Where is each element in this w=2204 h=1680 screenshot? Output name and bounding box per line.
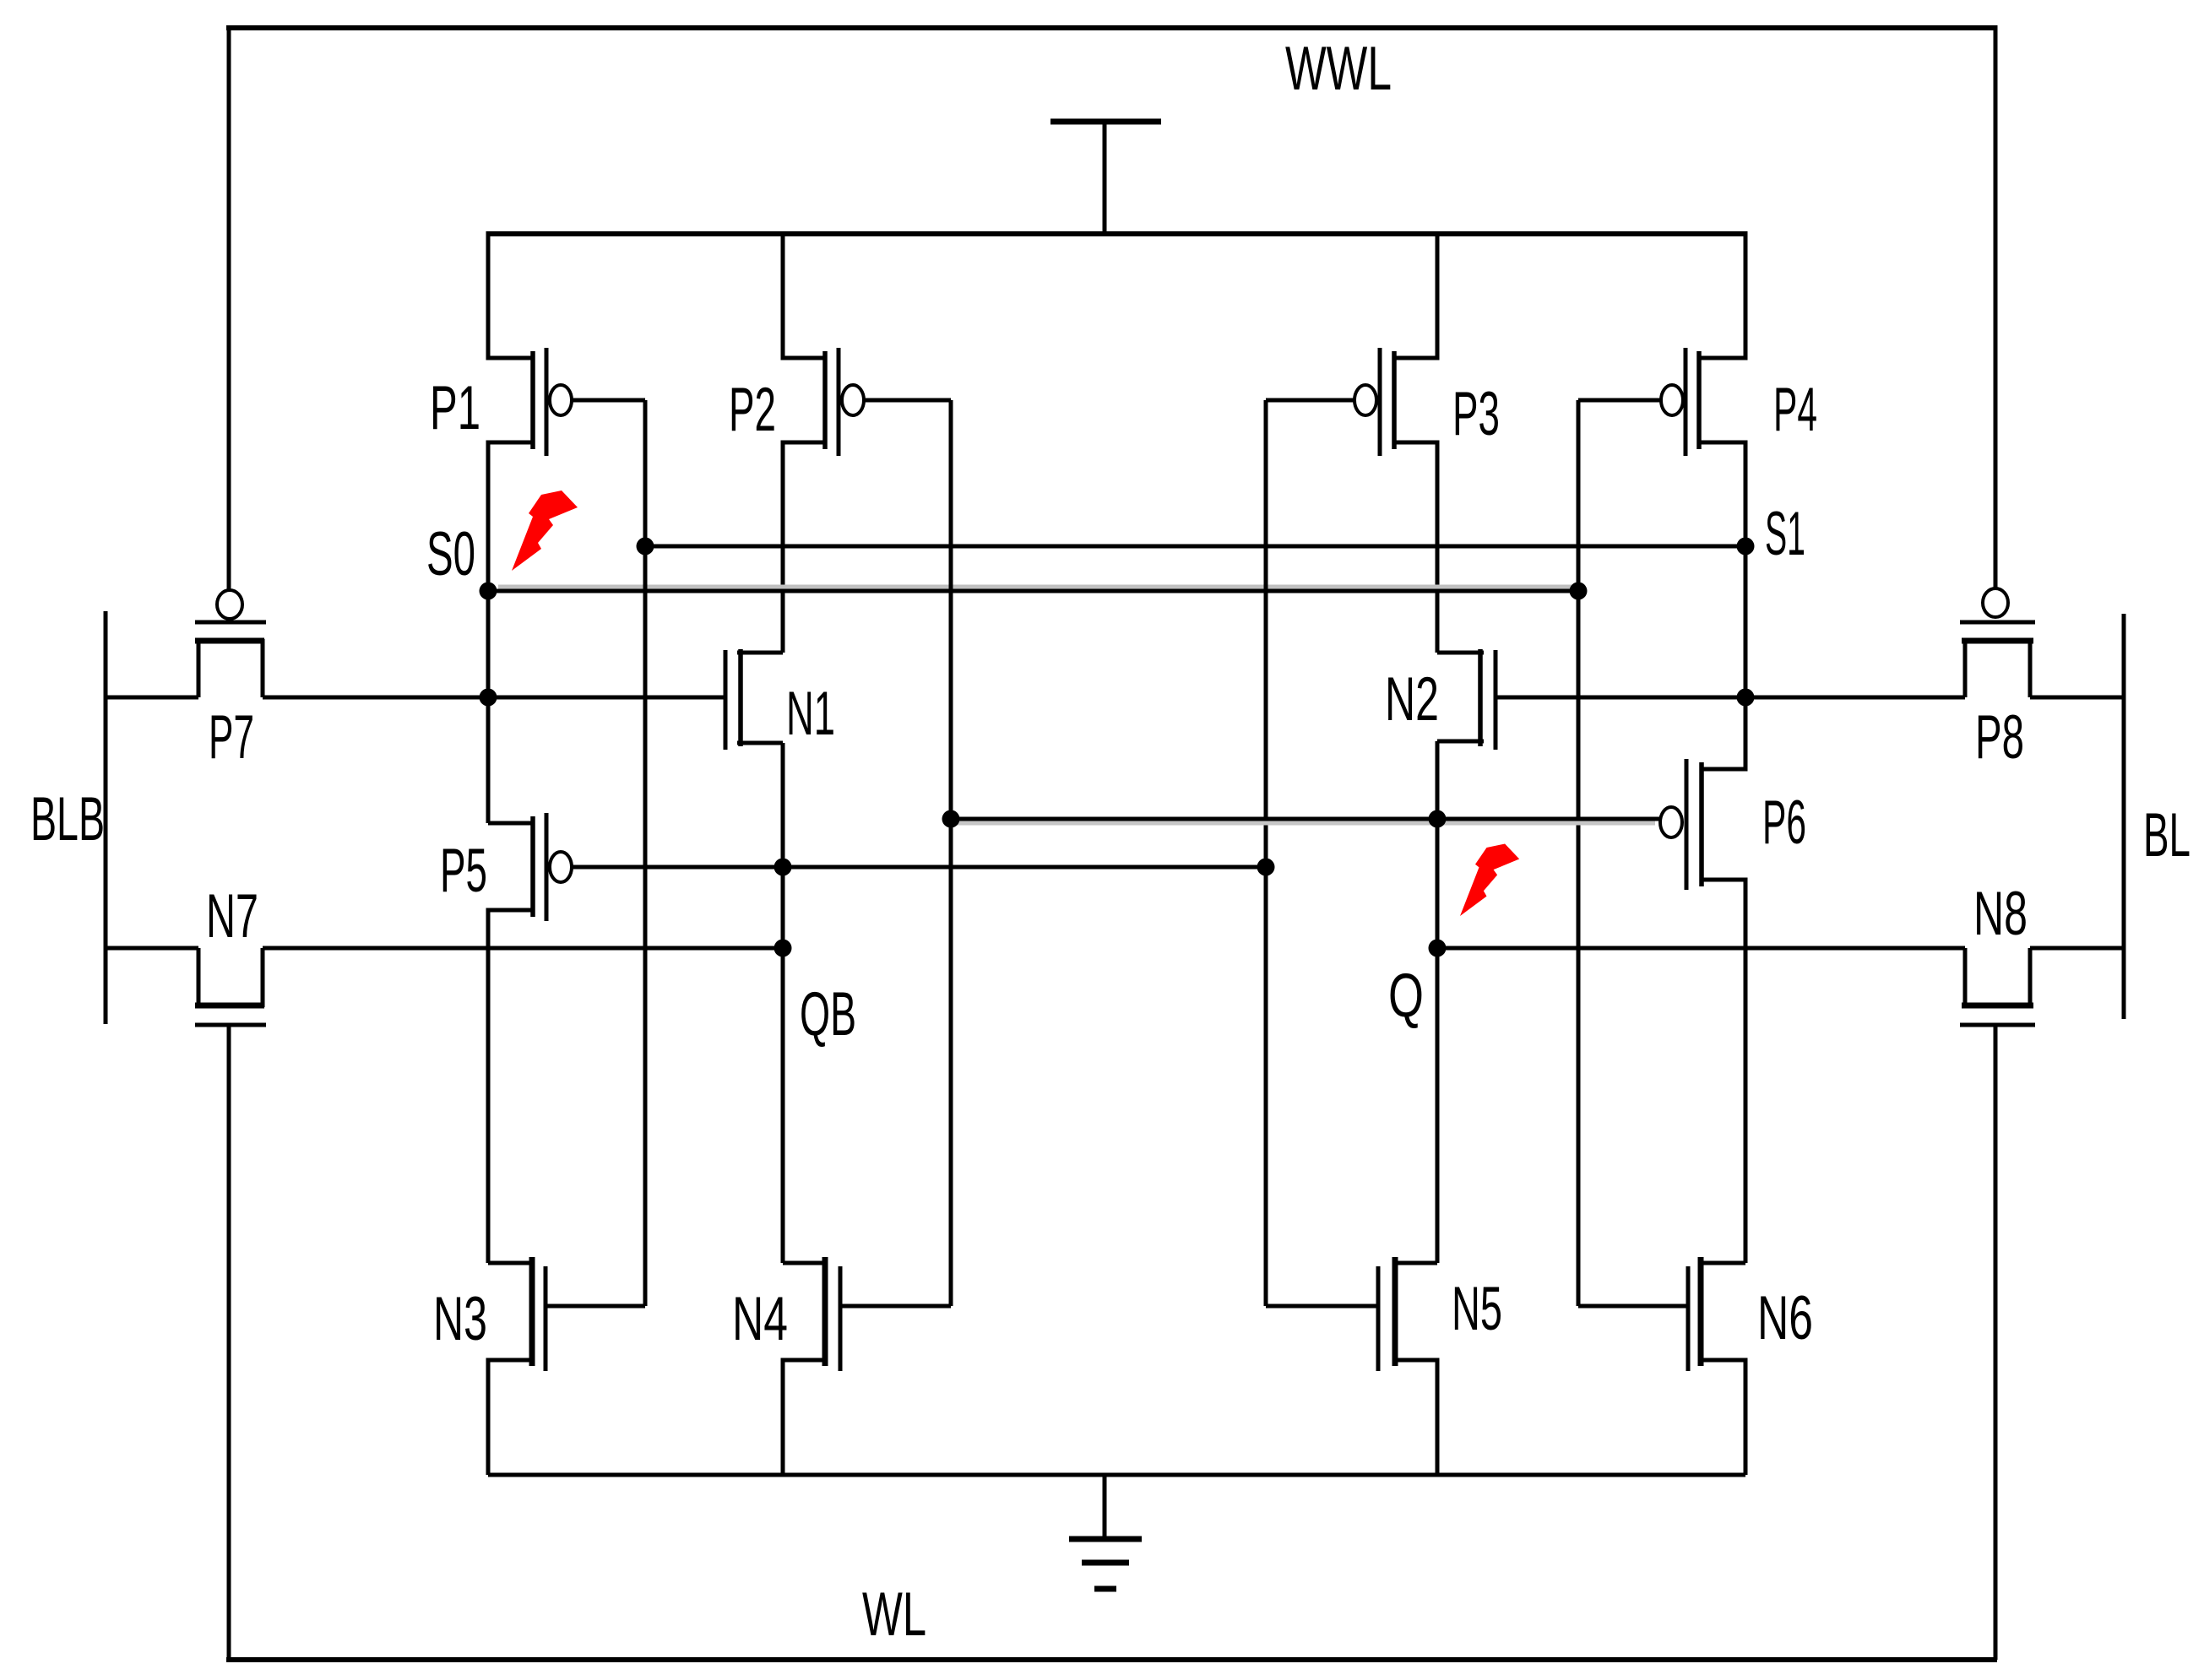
transistor N1 <box>488 649 783 750</box>
wire VDD stem <box>1103 122 1107 234</box>
node QB column <box>781 743 785 1263</box>
junction dot S1/N2 gate/P8 <box>1737 689 1755 707</box>
wire BLB bitline <box>104 611 108 1024</box>
wire N7 to node QB <box>263 946 784 951</box>
svg-text:P7: P7 <box>209 703 254 772</box>
transistor N7 <box>195 948 266 1025</box>
svg-text:WWL: WWL <box>1285 35 1392 103</box>
svg-text:P2: P2 <box>729 376 776 444</box>
transistor P2 <box>783 231 951 653</box>
wire BLB to N7 <box>106 946 198 951</box>
svg-text:N3: N3 <box>433 1285 487 1353</box>
wire Q to N8 <box>1437 946 1965 951</box>
wire P3 gate column to N5 <box>1264 400 1268 1306</box>
wire P2 gate column to N4 <box>949 400 953 1306</box>
SEU strike bolt at Q <box>1460 844 1519 917</box>
svg-text:S1: S1 <box>1765 500 1805 568</box>
transistor P5 <box>488 813 1266 1263</box>
node S0 column <box>486 591 491 823</box>
wire WWL top line <box>226 25 1997 30</box>
junction dot Q row/N2 <box>1429 810 1447 828</box>
wire P8 to BL <box>2030 696 2124 700</box>
svg-text:S0: S0 <box>426 520 475 588</box>
svg-text:N4: N4 <box>732 1285 788 1353</box>
node S0 junction dot <box>480 583 497 600</box>
svg-text:WL: WL <box>862 1580 926 1649</box>
transistor N8 <box>1960 948 2035 1025</box>
wire S0 horizontal <box>488 589 1578 593</box>
svg-text:N8: N8 <box>1973 880 2028 948</box>
node Q column <box>1436 741 1440 1263</box>
svg-text:N6: N6 <box>1757 1284 1813 1352</box>
svg-text:Q: Q <box>1388 962 1424 1030</box>
transistor P1 <box>488 231 645 591</box>
transistor P7 <box>195 590 266 697</box>
wire BL bitline <box>2122 614 2126 1019</box>
wire WL right vertical (N8 gate stem) <box>1994 1025 1998 1660</box>
svg-text:P1: P1 <box>430 374 480 442</box>
wire WWL right vertical <box>1994 25 1998 588</box>
svg-text:QB: QB <box>800 980 856 1049</box>
svg-text:P3: P3 <box>1452 380 1500 448</box>
node S1 junction dot <box>1737 538 1755 555</box>
junction dot QB row/P3 gate <box>1257 859 1275 876</box>
wire P4 gate column to N6 <box>1577 400 1581 1306</box>
ground symbol <box>1103 1475 1107 1539</box>
transistor P4 <box>1578 231 1745 546</box>
junction dot QB/P5 gate <box>774 859 792 876</box>
power VDD bar <box>1050 119 1161 125</box>
node QB junction dot <box>774 940 792 957</box>
wire P1 gate column to N3 <box>643 400 648 1306</box>
transistor N3 <box>488 1257 645 1475</box>
svg-text:N2: N2 <box>1385 665 1439 734</box>
junction dot S0/N1 gate <box>480 689 497 707</box>
svg-text:P8: P8 <box>1975 703 2024 772</box>
transistor P6 <box>1660 697 1745 1263</box>
wire Q gate row to P6 <box>951 817 1659 821</box>
svg-text:BLB: BLB <box>30 785 105 854</box>
node Q junction dot <box>1429 940 1447 957</box>
svg-text:BL: BL <box>2143 801 2190 870</box>
wire WWL left vertical <box>227 25 231 591</box>
transistor N4 <box>783 1257 951 1475</box>
transistor P3 <box>1266 231 1437 653</box>
wire VDD rail <box>488 231 1745 236</box>
wire S1 horizontal <box>645 545 1745 549</box>
svg-text:N1: N1 <box>786 680 835 748</box>
svg-text:P6: P6 <box>1762 789 1806 857</box>
wire Q gate row gray shadow <box>956 821 1655 826</box>
svg-text:P4: P4 <box>1773 376 1817 444</box>
transistor N2 <box>1437 649 1965 750</box>
wire GND rail <box>488 1473 1745 1477</box>
wire P7 to node S0 <box>263 696 488 700</box>
transistor N6 <box>1578 1257 1745 1475</box>
wire BLB to P7 <box>106 696 198 700</box>
transistor P8 <box>1960 588 2035 697</box>
svg-text:N7: N7 <box>206 882 258 951</box>
wire WL left vertical (N7 gate stem) <box>227 1025 231 1660</box>
node S1 column <box>1744 546 1748 697</box>
wire WL bottom line <box>226 1657 1997 1662</box>
wire N8 to BL <box>2030 946 2124 951</box>
transistor N5 <box>1266 1257 1437 1475</box>
junction dot S0 wire/P4 gate <box>1570 583 1588 600</box>
svg-text:N5: N5 <box>1452 1275 1502 1343</box>
junction dot S1 wire/P1 gate <box>637 538 654 555</box>
SEU strike bolt at S0 <box>512 490 578 571</box>
svg-text:P5: P5 <box>440 837 487 905</box>
junction dot Q row/P2 gate <box>942 810 960 828</box>
wire S0 horizontal gray shadow <box>498 585 1574 589</box>
